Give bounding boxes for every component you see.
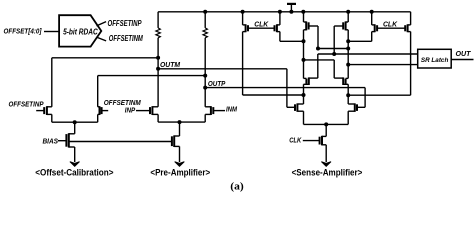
pmos M8 precharge xyxy=(243,24,248,32)
ground preamp xyxy=(175,162,185,167)
wire M2 drain up xyxy=(347,95,349,104)
junction X node xyxy=(302,93,306,97)
wire M9 source down xyxy=(279,32,281,42)
wire OUT_R vertical top xyxy=(347,12,349,22)
junction preamp tail xyxy=(178,120,182,124)
junction OUT_L precharge xyxy=(302,39,306,43)
wire M5 gate lead xyxy=(309,25,318,27)
nmos M16 preamp right xyxy=(205,106,213,115)
wire OUTP down to gate xyxy=(364,88,366,108)
resistor R1 xyxy=(156,28,160,38)
vdd supply symbol xyxy=(287,4,296,12)
svg-text:OFFSET[4:0]: OFFSET[4:0] xyxy=(4,27,42,36)
junction W1 left xyxy=(316,47,320,51)
resistor R2 xyxy=(203,28,207,38)
node OUTM label xyxy=(160,62,180,69)
junction rail-M6 xyxy=(346,10,350,14)
wire INM gate lead xyxy=(213,110,225,112)
junction OUT_R SR input xyxy=(346,63,350,67)
nmos M3 latch xyxy=(304,77,318,85)
pmos M6 latch xyxy=(343,21,348,30)
wire INP gate lead xyxy=(136,110,150,112)
label SR Latch xyxy=(421,57,449,64)
junction offset tail xyxy=(73,120,77,124)
wire M5 gate cross xyxy=(317,26,319,49)
nmos M2 input xyxy=(348,103,357,111)
svg-text:CLK: CLK xyxy=(254,20,269,29)
label INM xyxy=(226,107,237,114)
wire OUTM down to gate xyxy=(286,69,288,108)
wire OUTP to sense amp xyxy=(205,87,365,89)
junction rail-M9 xyxy=(278,10,282,14)
node OUTP label xyxy=(208,81,226,88)
junction OUTM-feedback xyxy=(156,56,160,60)
label CLK tail xyxy=(289,137,302,144)
wire clk gate left pair xyxy=(248,27,275,29)
pmos M9 precharge xyxy=(275,24,280,32)
junction OUTM xyxy=(156,67,160,71)
label OFFSETINP gate xyxy=(9,102,44,109)
junction rail-M5 xyxy=(301,10,305,14)
wire clk gate right pair xyxy=(377,27,405,29)
svg-text:INP: INP xyxy=(125,108,136,115)
wire M17 drain xyxy=(179,122,181,136)
wire M9 to OUT_L xyxy=(280,40,304,42)
junction sense tail xyxy=(324,122,328,126)
svg-text:OFFSETINM: OFFSETINM xyxy=(104,100,141,107)
wire M8 source down xyxy=(242,32,244,95)
wire M10 drain to rail xyxy=(371,12,373,25)
svg-text:BIAS: BIAS xyxy=(43,138,59,145)
nmos M14 bias tail xyxy=(66,133,74,147)
wire M2 gate lead xyxy=(357,106,365,108)
wire M7 source xyxy=(325,145,327,162)
wire offset-cal right drain feedback xyxy=(98,76,206,107)
wire M12 source xyxy=(51,114,53,122)
svg-text:OFFSETINP: OFFSETINP xyxy=(9,102,44,109)
nmos M12 offset left xyxy=(44,106,52,115)
junction rail-R2 xyxy=(203,10,207,14)
junction W2 M6gate xyxy=(332,52,336,56)
wire W3 cross xyxy=(304,59,335,61)
junction W3 OUT_L xyxy=(302,58,306,62)
junction OUTP xyxy=(203,86,207,90)
nmos M1 input xyxy=(295,103,304,111)
node OFFSETINM xyxy=(109,34,143,43)
label CLK left pair xyxy=(254,20,269,29)
wire OUT_L vertical top xyxy=(303,12,305,22)
junction OUTP-feedback xyxy=(203,74,207,78)
nmos M13 offset right xyxy=(98,106,102,115)
label INP xyxy=(125,108,136,115)
ground sense amp xyxy=(321,162,331,167)
wire VDD rail xyxy=(158,11,411,13)
wire M15 source xyxy=(157,114,159,122)
junction rail-vdd xyxy=(289,10,293,14)
wire OUT_R vertical xyxy=(347,30,349,79)
wire M13 source xyxy=(97,114,99,122)
svg-text:<Offset-Calibration>: <Offset-Calibration> xyxy=(35,167,113,177)
wire OFFSETINM gate lead xyxy=(102,110,109,112)
wire BIAS gate lead xyxy=(58,140,67,142)
wire M10 source down xyxy=(371,32,373,42)
pmos M10 precharge xyxy=(372,24,377,32)
svg-text:CLK: CLK xyxy=(289,137,302,144)
wire M4 gate jog xyxy=(346,77,349,79)
svg-text:5-bit RDAC: 5-bit RDAC xyxy=(63,28,98,37)
wire OUTM to sense amp xyxy=(158,68,287,70)
wire preamp common source xyxy=(158,121,205,123)
ground offset-cal xyxy=(70,162,80,167)
label CLK right pair xyxy=(383,20,398,29)
label Offset-Calibration xyxy=(35,167,113,177)
caption (a) xyxy=(230,181,244,192)
wire M7 drain xyxy=(325,124,327,136)
resistor R1 lead top xyxy=(157,12,159,28)
wire M14 source xyxy=(74,147,76,162)
SR latch U1 box xyxy=(418,49,452,68)
wire OFFSET bus input xyxy=(44,31,59,33)
wire R1 bottom to OUTM node xyxy=(157,38,159,107)
wire OFFSETINP gate lead xyxy=(36,110,44,112)
wire W2 to SR latch xyxy=(318,53,418,55)
wire M6 gate cross xyxy=(333,26,335,54)
wire offset-cal left drain feedback xyxy=(52,58,158,107)
svg-text:<Sense-Amplifier>: <Sense-Amplifier> xyxy=(292,168,363,178)
wire M10 to OUT_R xyxy=(348,40,372,42)
nmos M15 preamp left xyxy=(150,106,158,115)
node OFFSETINP xyxy=(108,19,143,28)
svg-text:CLK: CLK xyxy=(383,20,398,29)
wire M3 source down xyxy=(303,84,305,95)
wire M11 drain to rail xyxy=(410,12,412,25)
junction OUT_R precharge xyxy=(346,39,350,43)
wire RDAC output M diagonal xyxy=(97,37,107,41)
svg-text:<Pre-Amplifier>: <Pre-Amplifier> xyxy=(150,168,210,178)
svg-text:OFFSETINP: OFFSETINP xyxy=(108,19,143,28)
label OFFSET[4:0] xyxy=(4,27,42,36)
wire BIAS distribution xyxy=(69,141,172,143)
nmos M7 tail xyxy=(320,136,327,146)
junction rail-M8 xyxy=(241,10,245,14)
wire M3 drain up xyxy=(317,54,319,78)
svg-text:OFFSETINM: OFFSETINM xyxy=(109,34,143,43)
wire M6 gate lead xyxy=(334,25,343,27)
wire OUT_L vertical xyxy=(303,30,305,79)
label OFFSETINM gate xyxy=(104,100,141,107)
svg-text:INM: INM xyxy=(226,107,237,114)
label BIAS xyxy=(43,138,59,145)
junction W1 right xyxy=(346,47,350,51)
5-bit RDAC block U2 outline xyxy=(59,15,101,46)
wire offset-cal common source xyxy=(52,121,98,123)
wire OUT xyxy=(451,59,473,61)
wire M17 source xyxy=(179,146,181,162)
pmos M5 latch xyxy=(304,21,309,30)
wire Y precharge xyxy=(348,94,410,96)
wire W1 cross xyxy=(318,48,348,50)
svg-text:(a): (a) xyxy=(230,181,244,192)
svg-text:OUT: OUT xyxy=(456,51,472,58)
nmos M4 latch xyxy=(334,77,348,85)
wire RDAC output P diagonal xyxy=(97,22,107,26)
wire M11 source down xyxy=(410,32,412,96)
label Sense-Amplifier xyxy=(292,168,363,178)
svg-text:OUTP: OUTP xyxy=(208,81,226,88)
wire sense common source xyxy=(304,123,349,125)
wire M2 source down xyxy=(347,111,349,124)
junction Y node xyxy=(346,93,350,97)
wire M1 source down xyxy=(303,111,305,124)
wire M9 drain to rail xyxy=(279,12,281,25)
nmos M17 preamp tail xyxy=(172,135,180,147)
wire M16 source xyxy=(204,114,206,122)
wire CLK tail gate lead xyxy=(303,140,320,142)
wire M1 gate lead xyxy=(287,106,295,108)
wire M1 drain up xyxy=(303,95,305,104)
node OUT label xyxy=(456,51,472,58)
wire R2 bottom to OUTP node xyxy=(204,38,206,107)
pmos M11 precharge xyxy=(405,24,410,32)
wire X precharge xyxy=(243,94,304,96)
junction rail-M10 xyxy=(370,10,374,14)
wire M3 gate jog xyxy=(304,77,307,79)
wire M4 drain up xyxy=(333,60,335,78)
label Pre-Amplifier xyxy=(150,168,210,178)
wire M4 source down xyxy=(347,84,349,95)
resistor R2 lead top xyxy=(204,12,206,28)
svg-text:SR Latch: SR Latch xyxy=(421,57,449,64)
wire M8 drain to rail xyxy=(242,12,244,25)
wire OUT_R to SR latch xyxy=(348,64,418,66)
label 5-bit RDAC xyxy=(63,28,98,37)
wire M14 drain xyxy=(74,122,76,134)
